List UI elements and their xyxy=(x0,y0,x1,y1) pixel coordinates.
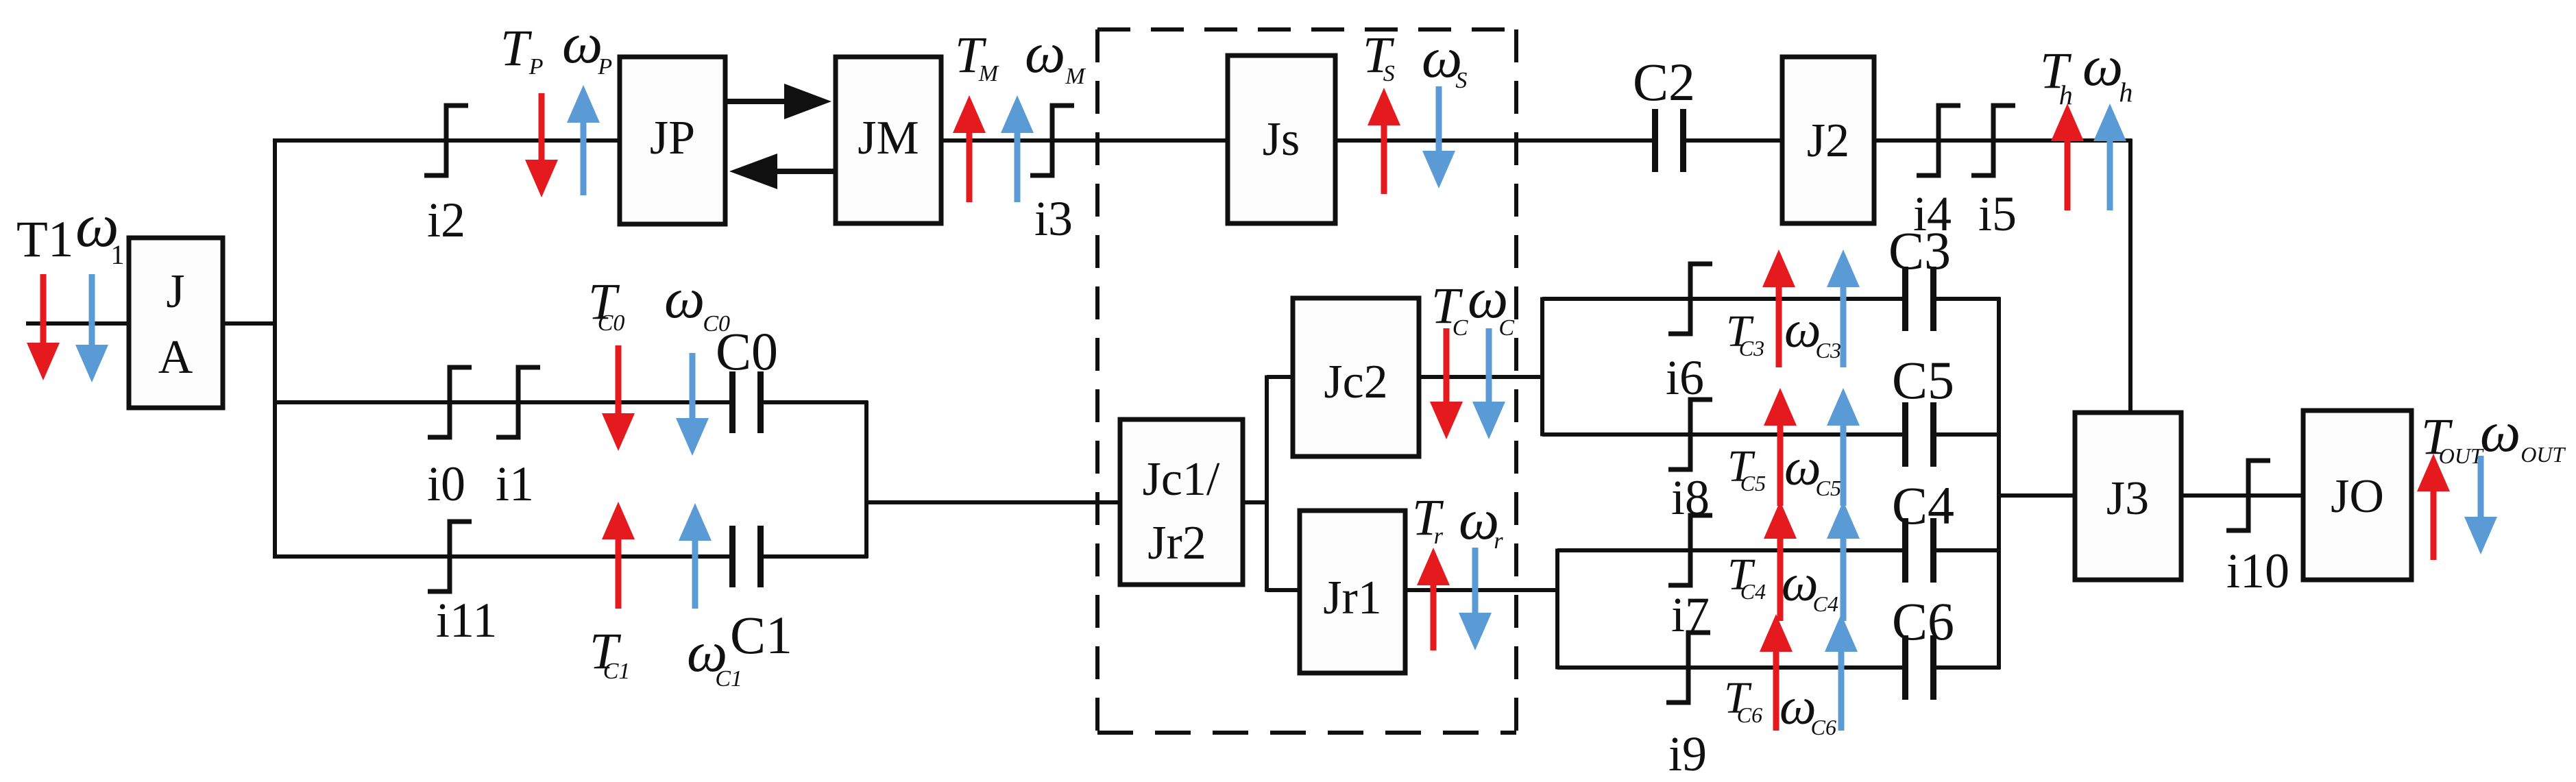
gear ratio i7 xyxy=(1668,515,1712,585)
wire split to Jc2 xyxy=(1267,375,1293,379)
svg-text:i8: i8 xyxy=(1671,470,1710,525)
wire corner down to J3 xyxy=(2128,139,2133,413)
label C2 xyxy=(1633,52,1695,112)
wire branch C4 xyxy=(1557,548,1904,552)
gear ratio i11 xyxy=(428,522,472,591)
label TM xyxy=(955,27,999,86)
svg-text:Jc1/: Jc1/ xyxy=(1143,453,1220,506)
inertia block Jc1/Jr2 xyxy=(1120,419,1243,585)
label omegaC4 xyxy=(1782,554,1838,616)
speed arrow omegar xyxy=(1459,548,1492,650)
torque arrow TC0 xyxy=(602,345,635,451)
svg-text:Js: Js xyxy=(1263,113,1300,166)
clutch C0 xyxy=(729,371,764,433)
svg-text:i1: i1 xyxy=(496,456,534,511)
label omegaM xyxy=(1025,21,1086,89)
wire C6 to bus xyxy=(1935,665,2000,670)
label omegaC1 xyxy=(687,620,742,692)
label omegaP xyxy=(562,12,612,80)
wire trunk to C0 (middle branch) xyxy=(274,400,731,404)
svg-text:J2: J2 xyxy=(1807,114,1849,167)
wire C3 to bus xyxy=(1935,297,2000,301)
speed arrow omega1 xyxy=(75,274,108,382)
svg-text:ωC: ωC xyxy=(1468,267,1514,341)
torque arrow TP xyxy=(525,93,558,197)
label i2 xyxy=(427,193,465,247)
svg-text:T1: T1 xyxy=(16,211,73,268)
svg-text:Jr2: Jr2 xyxy=(1147,517,1206,570)
label i10 xyxy=(2226,543,2289,598)
wire bus to J3 xyxy=(1999,493,2075,498)
gear ratio i4 xyxy=(1917,106,1960,175)
label omegah xyxy=(2082,34,2133,108)
label omegaC0 xyxy=(664,267,730,337)
torque arrow TC1 xyxy=(602,502,635,609)
wire trunk to C1 (bottom branch) xyxy=(274,554,731,559)
svg-text:ωS: ωS xyxy=(1422,26,1467,93)
clutch C1 xyxy=(729,526,764,587)
label omegar xyxy=(1459,488,1503,554)
wire branch C6 xyxy=(1557,665,1904,670)
power flow arrow JM to JP xyxy=(729,154,836,189)
wire Jc1/Jr2 to split xyxy=(1243,500,1268,504)
label TP xyxy=(500,20,544,80)
label i9 xyxy=(1668,726,1707,781)
svg-text:Jr1: Jr1 xyxy=(1323,572,1382,624)
wire node vertical x2272 xyxy=(1555,549,1559,670)
wire trunk vertical xyxy=(273,138,277,559)
speed arrow omegaC5 xyxy=(1827,388,1860,506)
speed arrow omegaC3 xyxy=(1827,249,1860,367)
label TOUT xyxy=(2421,408,2484,468)
inertia block J3 xyxy=(2075,413,2181,580)
clutch C6 xyxy=(1902,635,1936,700)
svg-text:C2: C2 xyxy=(1633,52,1695,112)
label C6 xyxy=(1892,591,1954,651)
label Th xyxy=(2040,42,2073,110)
wire trunk to JP (top branch) xyxy=(274,138,620,143)
torque arrow Th xyxy=(2051,103,2084,210)
torque arrow TC5 xyxy=(1764,388,1797,506)
inertia block Jr1 xyxy=(1300,511,1405,673)
inertia block JP xyxy=(620,57,725,224)
gear ratio i6 xyxy=(1668,264,1712,334)
power flow arrow JP to JM xyxy=(725,84,831,119)
speed arrow omegah xyxy=(2093,103,2126,210)
inertia block Jc2 xyxy=(1293,298,1419,456)
label omegaC5 xyxy=(1784,439,1841,500)
wire bus vertical x2916 xyxy=(1997,297,2001,670)
wire Jr1 to node x2272 xyxy=(1405,588,1559,592)
label omegaC3 xyxy=(1784,301,1841,363)
wire J2 to corner xyxy=(1874,138,2132,143)
label i3 xyxy=(1034,191,1073,246)
svg-text:Jc2: Jc2 xyxy=(1324,356,1387,408)
svg-text:ωr: ωr xyxy=(1459,488,1503,554)
svg-text:ω1: ω1 xyxy=(75,192,125,270)
torque arrow TC3 xyxy=(1762,249,1795,367)
inertia block J2 xyxy=(1782,57,1874,223)
svg-text:i0: i0 xyxy=(427,456,465,511)
svg-text:i7: i7 xyxy=(1671,587,1710,642)
svg-text:i2: i2 xyxy=(427,193,465,247)
speed arrow omegaC xyxy=(1472,328,1505,439)
svg-text:C3: C3 xyxy=(1888,221,1951,280)
speed arrow omegaOUT xyxy=(2464,456,2497,554)
svg-text:i9: i9 xyxy=(1668,726,1707,781)
label TC5 xyxy=(1727,441,1766,496)
svg-text:J: J xyxy=(166,265,184,318)
svg-text:i6: i6 xyxy=(1666,350,1704,405)
label TC6 xyxy=(1724,673,1762,727)
inertia block JA xyxy=(129,238,223,408)
wire branch C3 xyxy=(1542,297,1904,301)
inertia block Js xyxy=(1228,56,1335,223)
svg-text:A: A xyxy=(158,331,193,384)
label TC4 xyxy=(1727,550,1766,604)
torque arrow TC xyxy=(1430,328,1463,439)
label C3 xyxy=(1888,221,1951,280)
label omega1 xyxy=(75,192,125,270)
torque arrow TM xyxy=(953,95,986,202)
torque arrow TC4 xyxy=(1764,501,1797,621)
svg-text:i11: i11 xyxy=(436,593,497,648)
wire C5 to bus xyxy=(1935,432,2000,437)
svg-text:C4: C4 xyxy=(1892,476,1954,535)
label TC1 xyxy=(590,623,630,684)
svg-text:TS: TS xyxy=(1363,27,1395,86)
speed arrow omegaM xyxy=(1001,95,1034,202)
gear ratio i5 xyxy=(1971,106,2015,175)
gear ratio i0 xyxy=(428,367,472,437)
wire branch C5 xyxy=(1542,432,1904,437)
label i5 xyxy=(1978,186,2017,241)
label TS xyxy=(1363,27,1395,86)
wire junction to Jc1/Jr2 xyxy=(866,500,1120,504)
svg-text:JO: JO xyxy=(2331,470,2384,523)
wire J3 to JO xyxy=(2181,493,2303,498)
inertia block JO xyxy=(2303,411,2411,580)
torque arrow TOUT xyxy=(2417,454,2450,560)
torque arrow TS xyxy=(1368,88,1400,194)
label i4 xyxy=(1913,186,1952,241)
gear ratio i3 xyxy=(1030,106,1074,175)
speed arrow omegaS xyxy=(1422,86,1455,188)
clutch C5 xyxy=(1902,402,1936,467)
wire Js to C2 xyxy=(1335,138,1653,143)
wire C1 to right junction xyxy=(762,554,868,559)
wire C2 to J2 xyxy=(1685,138,1782,143)
svg-text:C5: C5 xyxy=(1892,350,1954,410)
speed arrow omegaC6 xyxy=(1825,614,1858,731)
speed arrow omegaC4 xyxy=(1827,501,1860,621)
torque arrow Tr xyxy=(1417,548,1450,650)
speed arrow omegaC0 xyxy=(676,353,709,456)
svg-text:i5: i5 xyxy=(1978,186,2017,241)
label i1 xyxy=(496,456,534,511)
wire JM to Js xyxy=(941,138,1228,143)
gear ratio i9 xyxy=(1666,633,1710,702)
svg-text:JP: JP xyxy=(650,112,695,164)
speed arrow omegaC1 xyxy=(679,503,712,609)
label i8 xyxy=(1671,470,1710,525)
label i7 xyxy=(1671,587,1710,642)
torque arrow TC6 xyxy=(1760,614,1793,731)
clutch C2 xyxy=(1652,109,1686,172)
label i11 xyxy=(436,593,497,648)
svg-text:i10: i10 xyxy=(2226,543,2289,598)
speed arrow omegaP xyxy=(567,85,600,195)
label omegaC xyxy=(1468,267,1514,341)
svg-text:J3: J3 xyxy=(2106,472,2149,525)
torque arrow T1 xyxy=(27,274,60,380)
clutch C3 xyxy=(1902,267,1936,331)
wire JA to trunk node xyxy=(223,321,277,326)
label C1 xyxy=(730,605,792,665)
label C4 xyxy=(1892,476,1954,535)
svg-text:i3: i3 xyxy=(1034,191,1073,246)
label omegaS xyxy=(1422,26,1467,93)
label T1 xyxy=(16,211,73,268)
label TC3 xyxy=(1726,306,1764,361)
label TC0 xyxy=(588,273,624,336)
svg-text:JM: JM xyxy=(858,112,919,164)
inertia block JM xyxy=(836,57,941,223)
wire split to Jr1 xyxy=(1267,588,1300,592)
label omegaC6 xyxy=(1779,678,1836,740)
wire C0 to right junction xyxy=(762,400,868,404)
dashed boundary box xyxy=(1097,29,1516,733)
wire node vertical x2250 xyxy=(1540,297,1544,437)
label TC xyxy=(1431,278,1468,341)
gear ratio i8 xyxy=(1668,400,1712,469)
label C0 xyxy=(716,321,778,381)
label i6 xyxy=(1666,350,1704,405)
svg-text:C6: C6 xyxy=(1892,591,1954,651)
label i0 xyxy=(427,456,465,511)
svg-text:Tr: Tr xyxy=(1412,489,1444,549)
wire input to JA xyxy=(26,321,129,326)
label C5 xyxy=(1892,350,1954,410)
wire junction vertical x1264 xyxy=(864,401,868,559)
gear ratio i1 xyxy=(496,367,540,437)
wire Jc2 to node x2250 xyxy=(1419,375,1544,379)
svg-text:C1: C1 xyxy=(730,605,792,665)
gear ratio i10 xyxy=(2226,461,2270,530)
clutch C4 xyxy=(1902,518,1936,583)
label omegaOUT xyxy=(2480,400,2566,467)
gear ratio i2 xyxy=(424,106,468,175)
wire C4 to bus xyxy=(1935,548,2000,552)
label Tr xyxy=(1412,489,1444,549)
wire split vertical x1848 xyxy=(1265,376,1269,592)
